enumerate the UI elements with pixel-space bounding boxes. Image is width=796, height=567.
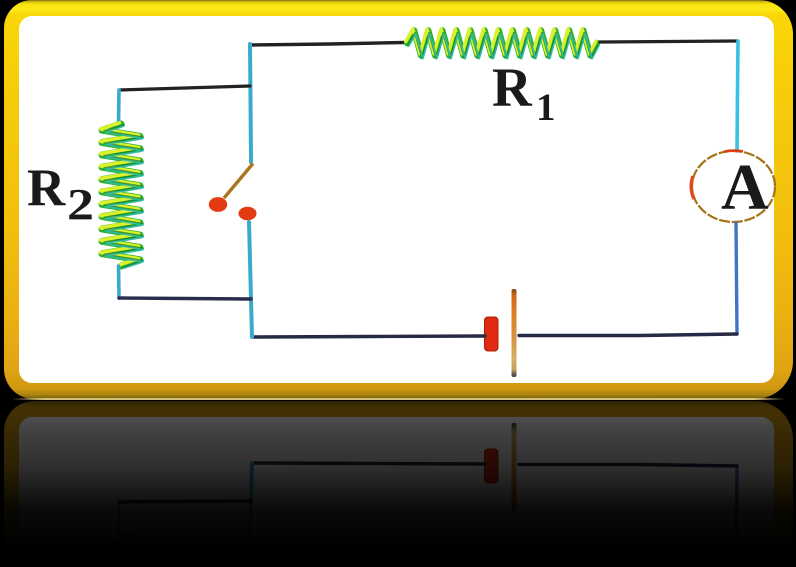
wire: middle vertical upper segment (top corner to switch) [250, 44, 251, 162]
svg-text:R: R [27, 159, 66, 217]
switch contact dot (lever end) [209, 197, 227, 212]
wire: right side, top-right corner down to ammeter [737, 41, 738, 151]
wire: middle vertical lower segment (switch to bottom corner) [249, 222, 252, 337]
battery cell (short plate = red bar, long plate = thin line) [485, 289, 517, 377]
switch contact dot (fixed, on wire) [239, 207, 257, 221]
label R2 [27, 159, 94, 229]
wire: branch top (node on middle wire to R2 top) [119, 86, 250, 90]
svg-text:1: 1 [536, 86, 556, 129]
svg-text:A: A [721, 151, 769, 224]
switch S (open knife switch lever) [224, 164, 253, 199]
svg-text:R: R [492, 57, 533, 118]
wire: branch bottom (back to middle wire) [119, 298, 251, 299]
resistor R1 (zigzag body) [406, 29, 599, 59]
resistor R2 (zigzag body) [101, 123, 144, 268]
svg-text:2: 2 [67, 180, 94, 229]
wire: branch left lower (R2 to bottom of branch) [117, 266, 121, 298]
wire: bottom, right corner to battery [519, 334, 737, 336]
wire: right side, ammeter down to bottom-right corner [736, 223, 737, 334]
wire: R1 to top-right corner [600, 41, 737, 42]
wire: branch left upper (down to R2) [117, 90, 121, 124]
wire: bottom, battery to switch-side corner [252, 336, 485, 337]
wire: top-left corner to R1 (node TL at 250,44) [250, 43, 404, 46]
label R1 [492, 57, 556, 129]
ammeter A (ellipse meter with letter A) [691, 151, 775, 224]
